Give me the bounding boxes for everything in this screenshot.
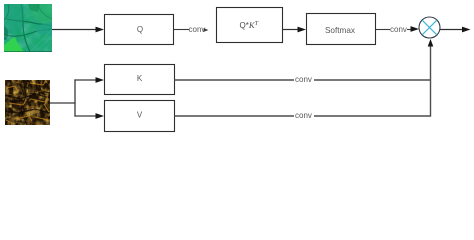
svg-text:conv: conv [390, 25, 407, 34]
svg-text:V: V [137, 111, 143, 120]
wire: right vertical up into multiply node [428, 39, 434, 117]
block Q*K^T [217, 8, 283, 43]
wire: Q to conv label [174, 25, 209, 34]
block Q [105, 15, 174, 45]
wire: optical image to Q [52, 27, 104, 33]
input optical image (green texture) [4, 4, 52, 52]
input SAR image (brown texture) [5, 80, 50, 125]
wire: K to right vertical with conv label [175, 75, 431, 84]
wire: Softmax to conv label to multiply node [376, 25, 420, 34]
wire: V to right vertical with conv label [175, 111, 431, 120]
svg-text:K: K [137, 74, 143, 83]
block Softmax [307, 14, 376, 45]
svg-text:conv: conv [295, 111, 312, 120]
svg-text:Q: Q [137, 25, 143, 34]
block V [105, 101, 175, 132]
wire: Q*K^T to Softmax [283, 27, 307, 33]
block K [105, 65, 175, 95]
svg-text:conv: conv [189, 25, 206, 34]
wire: SAR image to K/V split junction [50, 79, 76, 116]
svg-text:Softmax: Softmax [325, 26, 355, 35]
wire: junction to K [74, 77, 104, 83]
svg-text:conv: conv [295, 75, 312, 84]
multiply node (circle with cyan X) [419, 17, 440, 38]
output arrow [440, 27, 471, 33]
wire: junction to V [74, 113, 104, 119]
